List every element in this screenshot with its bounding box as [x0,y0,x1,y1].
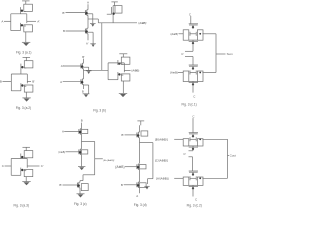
svg-text:B: B [63,29,65,33]
svg-text:A: A [87,0,89,4]
svg-text:(A⊕B): (A⊕B) [170,71,178,75]
svg-text:[B'(A⊕B)']: [B'(A⊕B)'] [155,138,168,142]
svg-text:Cout: Cout [230,154,237,158]
svg-text:B: B [82,89,84,93]
svg-text:Sum: Sum [227,52,234,56]
svg-text:B': B' [59,183,62,187]
svg-text:A: A [136,194,138,198]
svg-text:(A'+(A⊕B))': (A'+(A⊕B))' [103,159,115,162]
svg-text:A': A' [37,20,40,24]
svg-text:Fig. 3 (a.2): Fig. 3 (a.2) [16,106,31,110]
svg-text:(A⊕B)': (A⊕B)' [138,21,147,25]
svg-text:B': B' [62,11,65,15]
svg-text:C': C' [183,152,186,156]
svg-text:[A'(A⊕B)]: [A'(A⊕B)] [156,177,168,181]
svg-text:A: A [62,130,64,134]
svg-text:A': A' [61,64,64,68]
svg-text:A: A [60,80,62,84]
svg-text:B': B' [32,80,35,84]
svg-text:Fig. 3 (c.2): Fig. 3 (c.2) [187,203,202,207]
svg-text:Fig. 3 (d): Fig. 3 (d) [134,203,147,207]
svg-text:Fig. 3 (c.1): Fig. 3 (c.1) [182,103,197,107]
svg-text:(A⊕B): (A⊕B) [58,151,65,154]
svg-text:C: C [195,198,197,202]
svg-text:Fig. 3 (a.3): Fig. 3 (a.3) [14,204,29,208]
svg-text:A: A [1,20,3,24]
svg-text:C: C [193,95,195,99]
svg-text:B': B' [121,133,124,137]
svg-text:B': B' [121,183,124,187]
svg-text:Fig. 3 (c): Fig. 3 (c) [74,202,87,206]
svg-text:Fig. 3 (b): Fig. 3 (b) [93,108,106,112]
svg-text:Fig. 3 (a.1): Fig. 3 (a.1) [16,51,31,55]
svg-text:[C'(A⊕B)']: [C'(A⊕B)'] [155,159,168,163]
svg-text:C': C' [181,52,184,56]
svg-text:(A⊕B): (A⊕B) [115,165,124,169]
svg-text:C: C [192,114,194,118]
svg-text:(A⊕B): (A⊕B) [131,69,139,73]
svg-text:B: B [81,119,83,123]
svg-text:C': C' [41,164,44,168]
svg-text:B: B [0,80,2,84]
svg-text:(A⊕B)': (A⊕B)' [170,32,179,36]
